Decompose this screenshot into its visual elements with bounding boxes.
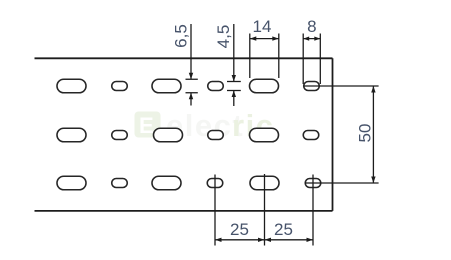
svg-text:4,5: 4,5 [214,25,233,49]
svg-text:14: 14 [253,17,272,36]
svg-text:6,5: 6,5 [172,24,191,48]
svg-text:25: 25 [274,220,293,239]
svg-text:E: E [139,113,154,138]
svg-text:8: 8 [307,17,316,36]
svg-text:50: 50 [356,124,375,143]
svg-text:25: 25 [230,220,249,239]
